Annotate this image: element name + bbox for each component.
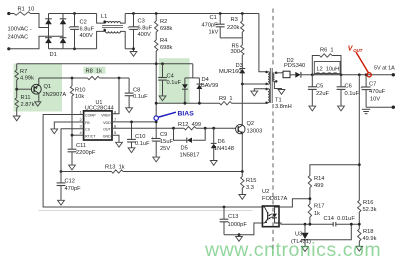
highlight box around resistor R8 label xyxy=(84,67,106,74)
wire clamp to R5 xyxy=(241,38,243,45)
capacitor C11 wire bottom xyxy=(71,152,73,165)
label C3 6.8uF 400V xyxy=(138,19,153,39)
capacitor C6 xyxy=(337,87,346,90)
capacitor C14 xyxy=(333,222,336,226)
HV top rail L1 to snubber xyxy=(125,13,259,15)
svg-text:COMP: COMP xyxy=(85,114,96,118)
svg-text:MUR160: MUR160 xyxy=(219,69,241,75)
diode D6 1N4148 xyxy=(211,143,217,148)
svg-text:R2: R2 xyxy=(160,19,167,25)
svg-text:470pF: 470pF xyxy=(202,23,219,29)
label R3 220k xyxy=(227,17,239,31)
transformer T1 core xyxy=(270,68,272,103)
sense box on secondary output xyxy=(283,71,290,78)
AC input terminal bottom xyxy=(7,47,10,50)
junction C4 xyxy=(161,62,164,65)
capacitor C4 xyxy=(158,78,167,81)
capacitor C8 xyxy=(125,93,134,96)
junction D4b base line xyxy=(198,102,201,105)
ground below C6 xyxy=(338,106,345,111)
ground below Q1 xyxy=(35,102,41,106)
svg-text:240VAC: 240VAC xyxy=(8,35,29,41)
capacitor C9 plus sign xyxy=(151,136,154,142)
diode D4b wire xyxy=(198,78,200,84)
bias column xyxy=(155,64,157,139)
junction ref xyxy=(350,223,353,226)
bridge rectifier D1 left leg wire xyxy=(48,14,50,49)
svg-text:U2: U2 xyxy=(262,189,269,195)
ground below C11 xyxy=(69,165,76,170)
label U1 UCC28C44 xyxy=(85,100,114,112)
wire secondary top to sense box xyxy=(276,72,283,74)
pin names U1 left xyxy=(85,114,96,139)
svg-text:2N2907A: 2N2907A xyxy=(43,92,67,98)
capacitor C4 wire xyxy=(162,64,164,78)
resistor R16 xyxy=(358,201,361,213)
opto light arrows xyxy=(268,214,272,220)
svg-text:C11: C11 xyxy=(76,143,86,149)
svg-text:10k: 10k xyxy=(75,94,84,100)
capacitor C2 xyxy=(70,27,79,30)
wire GND pin5 xyxy=(112,135,119,142)
output return terminal dot xyxy=(392,106,395,109)
wire aux bottom / base drive line xyxy=(156,102,266,104)
wire R15 to ground xyxy=(241,188,243,195)
svg-text:R8 1k: R8 1k xyxy=(86,69,103,75)
resistor R7 wire top xyxy=(16,64,18,70)
AC input terminal top xyxy=(7,12,10,15)
label D5 1N5817 xyxy=(180,146,200,159)
label D2 PDS340 xyxy=(284,58,305,69)
ground FB pin2 xyxy=(51,129,58,134)
D5 branch xyxy=(174,128,206,140)
ground below R15 xyxy=(239,195,246,200)
svg-text:400V: 400V xyxy=(80,33,93,39)
junction R14 R17 opto xyxy=(309,197,312,200)
label C7 470uF 10V xyxy=(369,82,386,103)
capacitor C9 xyxy=(152,139,161,142)
svg-text:U3: U3 xyxy=(295,232,302,238)
resistor R9 xyxy=(220,102,232,105)
diode D3 MUR160 xyxy=(239,69,245,74)
opto transistor xyxy=(262,207,267,223)
watermark www.cntronics.com xyxy=(204,239,381,261)
resistor R3 wire top xyxy=(241,14,243,22)
svg-text:R11: R11 xyxy=(21,95,31,101)
junction bias / VDD xyxy=(155,121,158,124)
ground below R18 xyxy=(356,246,363,251)
svg-text:VDD: VDD xyxy=(103,121,111,125)
bias rail left xyxy=(17,63,193,65)
diode D1b xyxy=(45,38,52,43)
wire R10 to RT/CT xyxy=(71,96,73,135)
junction C10 xyxy=(130,121,133,124)
TL431 U3 xyxy=(301,233,308,240)
svg-text:BAV99: BAV99 xyxy=(201,83,218,89)
wire COMP pin1 to feedback bus xyxy=(43,115,262,208)
pin numbers U1 right xyxy=(114,109,117,135)
BIAS pointer line xyxy=(159,112,177,117)
svg-text:698k: 698k xyxy=(160,45,172,51)
pin numbers U1 left xyxy=(80,109,83,135)
label C11 2200pF xyxy=(76,143,96,156)
VREF horizontal line xyxy=(39,77,129,79)
wire AC top to R1 xyxy=(9,13,14,15)
diode D4a wire xyxy=(184,78,186,84)
capacitor C3 plus sign xyxy=(127,25,130,30)
label U2 FOD817A xyxy=(262,189,287,202)
svg-text:0.1uF: 0.1uF xyxy=(345,91,360,97)
resistor R6 loop xyxy=(312,56,341,75)
resistor R7 xyxy=(15,70,18,80)
capacitor C7 xyxy=(362,87,371,90)
svg-text:Q2: Q2 xyxy=(247,121,255,127)
wire opto anode xyxy=(279,199,310,207)
capacitor C8 wire bottom xyxy=(128,96,130,108)
wire VREF pin8 xyxy=(112,78,119,114)
capacitor C12 wire xyxy=(60,172,62,183)
capacitor C10 xyxy=(127,139,136,142)
HV top rail bridge to L1 xyxy=(49,13,97,15)
junction CS / C12 / R13 xyxy=(60,170,63,173)
capacitor C3 xyxy=(129,27,138,30)
resistor R14 xyxy=(308,176,311,188)
opto emitter return wire xyxy=(224,223,262,235)
wire R11 to ground xyxy=(16,108,18,116)
svg-text:UCC28C44: UCC28C44 xyxy=(85,106,114,112)
inductor L1 top winding xyxy=(106,22,121,24)
svg-text:BIAS: BIAS xyxy=(178,111,195,118)
wire D4 tee xyxy=(185,77,200,79)
junction R17 bottom xyxy=(309,223,312,226)
capacitor C10 wire xyxy=(131,122,133,139)
svg-text:www.cntronics.com: www.cntronics.com xyxy=(204,239,381,261)
aux winding T1 xyxy=(268,89,270,103)
capacitor C11 wire xyxy=(71,135,73,149)
svg-text:C6: C6 xyxy=(345,84,352,90)
label BIAS xyxy=(178,111,195,118)
resistor R18 xyxy=(358,229,361,241)
svg-text:1kV: 1kV xyxy=(209,30,219,36)
diode D1a xyxy=(45,19,52,24)
svg-text:C7: C7 xyxy=(369,82,376,88)
svg-text:C2: C2 xyxy=(80,20,87,26)
wire Q2 emitter xyxy=(241,134,243,172)
svg-text:52.3k: 52.3k xyxy=(363,207,377,213)
svg-text:C3: C3 xyxy=(138,19,145,25)
wire D6 bottom xyxy=(213,148,215,160)
label C2 6.8uF 400V xyxy=(80,20,95,40)
svg-text:C8: C8 xyxy=(133,88,140,94)
svg-text:L1: L1 xyxy=(101,14,107,20)
optocoupler U2 body xyxy=(262,206,279,227)
junction D6 xyxy=(212,127,215,130)
resistor R11 xyxy=(15,98,18,108)
label R1 10 xyxy=(18,7,35,13)
capacitor C9 wire bottom xyxy=(155,141,157,157)
svg-text:220k: 220k xyxy=(227,25,239,31)
resistor R15 xyxy=(241,177,244,189)
wire AC bottom to bridge right mid xyxy=(9,36,63,49)
label D6 1N4148 xyxy=(214,139,234,152)
svg-text:R7: R7 xyxy=(20,69,27,75)
capacitor C5 wire xyxy=(311,75,313,87)
junction drain node xyxy=(241,83,244,86)
resistor R5 xyxy=(241,45,244,55)
svg-text:5V at 1A: 5V at 1A xyxy=(374,66,395,72)
ground below C4 xyxy=(159,96,166,101)
resistor R6 xyxy=(320,54,333,57)
diode D2 PDS340 xyxy=(295,72,301,78)
svg-text:R14: R14 xyxy=(314,176,324,182)
Vout red terminal circle xyxy=(367,73,371,77)
inductor L1 right risers xyxy=(120,14,125,49)
TL431 U3 wire top xyxy=(304,224,306,233)
opto LED xyxy=(272,207,279,223)
wire Q1 collector to ground xyxy=(38,94,40,102)
label Vout red xyxy=(348,46,363,53)
label T1 3.8mH xyxy=(275,98,292,111)
svg-text:2.87k: 2.87k xyxy=(21,102,35,108)
label L2 10uH xyxy=(317,67,340,73)
wire R18 to ground xyxy=(358,241,360,246)
inductor L2 winding xyxy=(315,73,338,75)
wire R5 to D3 xyxy=(241,55,243,68)
output terminal dot xyxy=(392,73,395,76)
inductor L1 bottom winding xyxy=(106,31,121,33)
svg-text:1N4148: 1N4148 xyxy=(214,146,234,152)
capacitor C2 wire top xyxy=(74,14,76,27)
HV bottom rail L1 to C3 xyxy=(125,48,133,50)
wire Q1 emitter up to VREF line xyxy=(38,78,40,85)
capacitor C12 xyxy=(57,183,66,186)
svg-text:R18: R18 xyxy=(363,229,373,235)
capacitor C7 wire bottom xyxy=(365,90,367,108)
svg-text:R17: R17 xyxy=(314,204,324,210)
inductor L1 left risers xyxy=(97,14,106,49)
wire secondary bottom to ground xyxy=(274,81,281,89)
resistor R1 xyxy=(14,12,31,15)
svg-text:400V: 400V xyxy=(138,32,151,38)
label 100VAC-240VAC xyxy=(8,27,32,41)
junction R10 top xyxy=(71,77,74,80)
inductor L2 label box xyxy=(314,62,340,74)
junction rail R16 xyxy=(358,73,361,76)
svg-text:1N5817: 1N5817 xyxy=(180,153,200,159)
junction bias rail / startup divider xyxy=(155,62,158,65)
svg-text:R13 1k: R13 1k xyxy=(105,165,125,171)
label L1 xyxy=(101,14,107,20)
ground below C3 xyxy=(130,52,137,57)
label R10 10k xyxy=(75,88,85,101)
wire R16 bottom xyxy=(358,212,360,229)
highlight box around capacitor C4 / clamp diode area xyxy=(159,58,190,103)
label D3 MUR160 xyxy=(219,63,243,75)
svg-text:R3: R3 xyxy=(231,17,238,23)
OUT drive line xyxy=(112,127,236,129)
ground pin5 xyxy=(116,142,123,147)
svg-text:C12: C12 xyxy=(65,179,75,185)
label R2 698k xyxy=(160,19,172,32)
capacitor C2 wire bottom xyxy=(74,29,76,48)
junction top rail C3 xyxy=(132,12,135,15)
capacitor C6 wire bottom xyxy=(340,89,342,106)
wire bias rail down to D4 tee xyxy=(192,64,194,78)
label R8 1k xyxy=(86,69,103,75)
label D1 xyxy=(50,52,57,58)
wire R2 to R4 xyxy=(155,32,157,40)
diode D4b wire bottom xyxy=(198,89,200,103)
junction top rail C2 xyxy=(73,12,76,15)
Vout red pointer line xyxy=(356,52,369,73)
junction R12 right xyxy=(204,127,207,130)
svg-text:PDS340: PDS340 xyxy=(284,63,305,69)
wire D3 to drain node xyxy=(241,73,243,84)
label R18 49.9k xyxy=(363,229,377,242)
svg-text:C10: C10 xyxy=(135,134,145,140)
resistor R8 xyxy=(88,76,100,79)
wire VDD pin7 xyxy=(112,121,156,123)
svg-text:10V: 10V xyxy=(370,97,380,103)
capacitor C6 wire xyxy=(340,75,342,87)
capacitor C12 wire bottom xyxy=(60,186,62,201)
wire top rail to primary xyxy=(259,14,267,72)
svg-text:R1 10: R1 10 xyxy=(18,7,35,13)
wire return terminal xyxy=(366,106,393,108)
ground below C9 xyxy=(153,157,160,162)
highlight box around startup comparator Q1 area xyxy=(14,64,63,112)
svg-text:300: 300 xyxy=(231,49,241,55)
svg-text:CS: CS xyxy=(85,128,91,132)
label C5 22uF xyxy=(316,84,329,98)
pin names U1 right xyxy=(101,114,111,139)
svg-text:R10: R10 xyxy=(75,88,85,94)
label C8 0.1uF xyxy=(133,88,148,101)
svg-text:GND: GND xyxy=(103,135,111,139)
label R15 3.3 xyxy=(246,178,256,191)
ground below C8 xyxy=(126,108,133,113)
TL431 anode wire xyxy=(304,240,306,247)
svg-text:4.99k: 4.99k xyxy=(20,76,34,82)
label R9 1 xyxy=(219,96,233,102)
wire R4 down to bias rail tee xyxy=(155,51,157,64)
diode D1d xyxy=(60,38,67,43)
wire R17 bottom xyxy=(309,217,311,224)
IC U1 UCC28C44 body xyxy=(84,111,112,140)
wire box to D2 xyxy=(290,74,295,76)
ground secondary xyxy=(278,90,285,95)
label R11 2.87k xyxy=(21,95,35,108)
label C12 470pF xyxy=(65,179,82,193)
capacitor C13 wire bottom xyxy=(223,222,225,235)
svg-text:3.8mH: 3.8mH xyxy=(275,104,292,110)
junction TL431 cathode xyxy=(304,223,307,226)
capacitor C1 wire bottom xyxy=(219,27,221,38)
ground aux winding xyxy=(251,91,258,96)
label C13 1000pF xyxy=(228,214,248,228)
label C14 0.01uF xyxy=(324,216,356,222)
svg-text:C5: C5 xyxy=(316,84,323,90)
earth ground below C7 xyxy=(362,109,370,113)
svg-text:VREF: VREF xyxy=(101,114,111,118)
ground below C10 xyxy=(128,148,135,153)
diode D4a xyxy=(182,84,188,89)
svg-text:D4: D4 xyxy=(202,77,209,83)
svg-text:C4: C4 xyxy=(167,74,174,80)
svg-text:470uF: 470uF xyxy=(369,89,386,95)
wire R10 top xyxy=(71,78,73,86)
wire R7 to R11 xyxy=(16,80,18,98)
svg-text:25V: 25V xyxy=(160,146,170,152)
junction rail C5 xyxy=(311,73,314,76)
svg-text:FOD817A: FOD817A xyxy=(262,196,287,202)
label R6 1 xyxy=(320,48,334,54)
junction VREF riser xyxy=(118,77,121,80)
label C4 0.1uF xyxy=(167,74,182,87)
capacitor C11 xyxy=(68,149,77,152)
wire D6 top xyxy=(213,128,215,143)
junction D4a base line xyxy=(184,102,187,105)
junction divider midpoint xyxy=(358,223,361,226)
svg-text:6.8uF: 6.8uF xyxy=(138,26,153,32)
svg-text:C1: C1 xyxy=(210,15,217,21)
junction rail C6 xyxy=(340,73,343,76)
svg-text:R9 1: R9 1 xyxy=(219,96,233,102)
wire emitter to R15 xyxy=(241,172,243,177)
junction bottom rail C3 xyxy=(132,47,135,50)
resistor R12 xyxy=(184,127,196,130)
wire CS pin3 xyxy=(61,129,84,172)
wire opto cathode xyxy=(279,223,359,224)
svg-text:D6: D6 xyxy=(218,139,225,145)
secondary terminal dots xyxy=(275,72,278,83)
wire RT/CT pin4 xyxy=(72,134,84,136)
wire FB pin2 to ground xyxy=(54,122,83,129)
label R7 4.99k xyxy=(20,69,34,82)
label C9 15uF 25V xyxy=(160,132,173,152)
junction Q2 emitter sense xyxy=(241,170,244,173)
svg-text:R12 499: R12 499 xyxy=(178,122,201,128)
junction top rail R3 xyxy=(241,12,244,15)
capacitor C5 wire bottom xyxy=(311,89,313,106)
svg-text:D5: D5 xyxy=(181,146,188,152)
svg-text:C14 0.01uF: C14 0.01uF xyxy=(324,216,356,222)
transistor Q2 13003 xyxy=(236,124,245,133)
ground below C13 xyxy=(236,235,243,242)
diode D1c xyxy=(60,19,67,24)
wire R1 to bridge left mid xyxy=(31,14,49,28)
label R14 499 xyxy=(314,176,324,189)
svg-text:FB: FB xyxy=(85,121,90,125)
wire clamp bottom tie xyxy=(220,37,242,39)
svg-text:OUT: OUT xyxy=(103,128,111,132)
page artifact line xyxy=(39,210,253,212)
svg-text:470pF: 470pF xyxy=(65,186,82,192)
diode D4a wire bottom xyxy=(184,89,186,103)
label C1 470pF 1kV xyxy=(202,15,219,36)
label D4 BAV99 xyxy=(201,77,218,89)
label 5V at 1A xyxy=(374,66,395,72)
svg-text:Q1: Q1 xyxy=(44,84,52,90)
svg-text:100VAC -: 100VAC - xyxy=(8,27,32,33)
aux terminal dots xyxy=(265,88,268,104)
diode D5 1N5817 xyxy=(187,138,192,143)
inductor L1 core xyxy=(102,26,123,28)
label R4 698k xyxy=(160,38,172,51)
wire 5V to divider xyxy=(358,75,360,201)
label Q1 2N2907A xyxy=(43,84,67,98)
svg-text:RT/CT: RT/CT xyxy=(85,135,96,139)
